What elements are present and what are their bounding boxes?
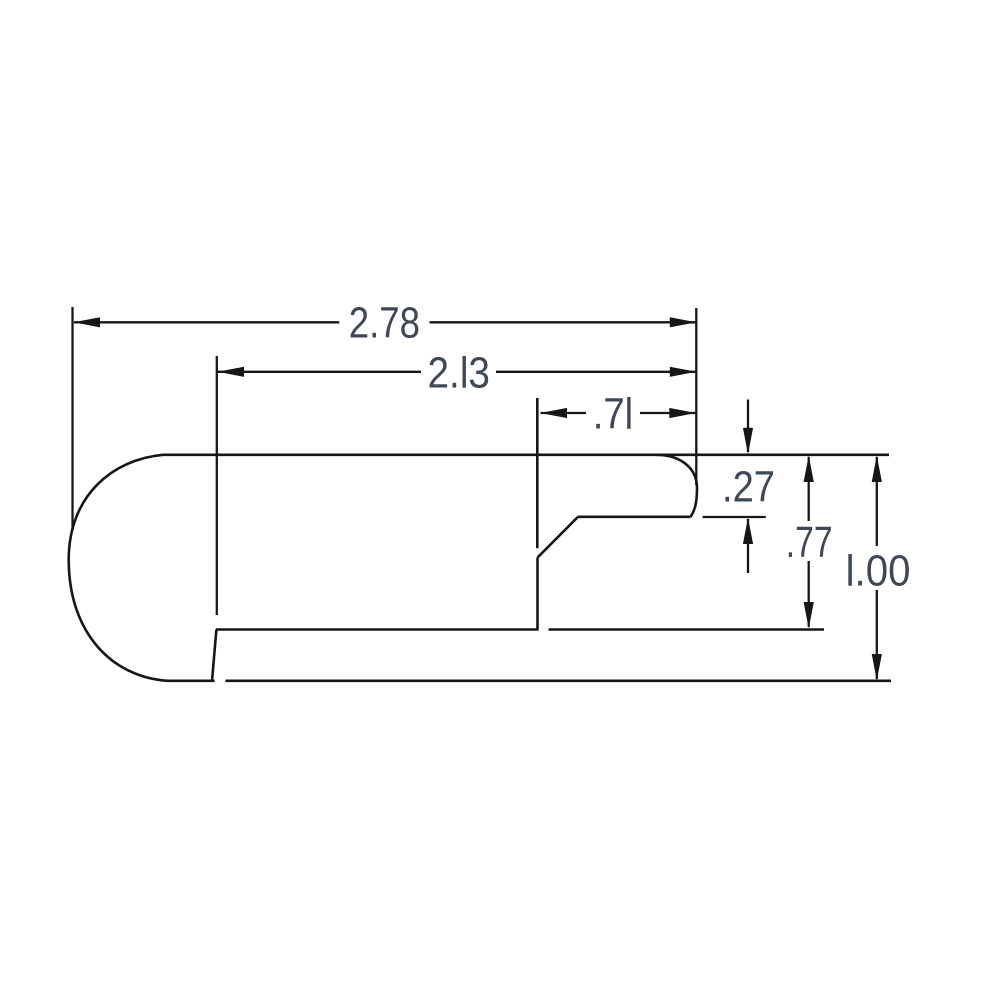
svg-text:.27: .27 bbox=[722, 463, 775, 512]
svg-text:2.l3: 2.l3 bbox=[428, 349, 491, 398]
svg-text:l.00: l.00 bbox=[846, 547, 911, 596]
svg-text:.77: .77 bbox=[786, 518, 833, 567]
svg-text:2.78: 2.78 bbox=[349, 299, 420, 348]
svg-text:.7l: .7l bbox=[593, 390, 634, 439]
